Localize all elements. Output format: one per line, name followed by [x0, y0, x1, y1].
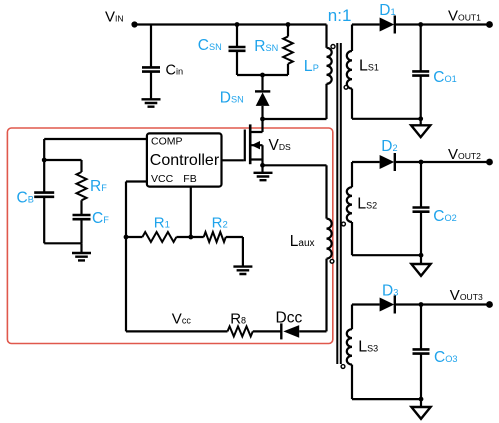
transformer core — [337, 43, 341, 364]
wire switch node to primary — [263, 118, 327, 120]
wire VCC pin — [126, 182, 147, 332]
wire Cin bottom — [150, 72, 152, 100]
capacitor CO2 — [413, 208, 457, 226]
wire R8 to Dcc — [253, 330, 281, 332]
diode D2 — [380, 138, 398, 171]
resistor R1 — [142, 214, 176, 242]
capacitor CF — [73, 210, 110, 227]
wire FB pin — [190, 187, 192, 237]
primary winding LP — [304, 48, 332, 84]
junction switch node (drain) — [260, 117, 265, 122]
polarity dot Laux — [330, 259, 334, 263]
wire CB bottom — [43, 197, 45, 243]
ground below R2 — [233, 267, 252, 274]
resistor RF — [77, 172, 108, 200]
wire LP bottom — [325, 84, 327, 119]
wire LP top — [325, 25, 327, 48]
resistor R8 — [228, 311, 253, 337]
wire LS2 bottom — [351, 222, 353, 255]
wire COMP pin — [44, 139, 147, 160]
wire output2 bottom rail — [352, 254, 421, 256]
ground below Q1 source — [254, 173, 273, 180]
wire gate — [222, 159, 244, 161]
capacitor CO1 — [412, 69, 457, 86]
net label VOUT2 — [448, 146, 481, 163]
label VDS — [269, 137, 292, 154]
ground below Cin — [142, 99, 161, 106]
diode DSN — [220, 90, 270, 107]
junction VCC to R1 — [124, 235, 129, 240]
junction Q1 source — [260, 163, 265, 168]
polarity dot LP — [331, 45, 335, 49]
junction output2 ground — [419, 253, 424, 258]
ground output2 — [411, 264, 430, 276]
controller name label — [150, 152, 220, 169]
wire CO1 top — [420, 25, 422, 72]
wire RSN top — [287, 25, 289, 37]
wire DSN cathode — [261, 75, 263, 90]
wire CO2 bottom — [420, 212, 422, 255]
wire CO2 top — [420, 162, 422, 207]
svg-text:Controller: Controller — [150, 152, 220, 169]
wire R1 to R2 — [176, 236, 203, 238]
wire LS2 to D2 — [352, 161, 380, 163]
wire Dcc to Laux — [299, 330, 326, 332]
junction COMP node — [42, 158, 47, 163]
junction CSN top — [235, 22, 240, 27]
wire COMP node to RF — [44, 159, 81, 161]
resistor RSN — [254, 37, 292, 64]
wire D1 to VOUT1 — [395, 23, 489, 25]
svg-text:COMP: COMP — [151, 136, 183, 148]
diode D3 — [380, 282, 399, 313]
junction RSN top — [286, 22, 291, 27]
svg-text:FB: FB — [183, 173, 196, 185]
controller pin label COMP — [151, 136, 183, 148]
controller section boundary box — [7, 128, 332, 344]
ground output3 — [411, 407, 430, 419]
polarity dot LS2 — [342, 222, 346, 226]
wire DSN anode — [261, 106, 263, 119]
wire LS1 to D1 — [352, 23, 380, 25]
net label VOUT1 — [448, 8, 481, 25]
wire LS3 to D3 — [352, 303, 380, 305]
junction output3 ground — [419, 397, 424, 402]
diode Dcc — [276, 310, 303, 340]
polarity dot LS1 — [344, 85, 348, 89]
wire LS1 top — [351, 25, 353, 52]
wire CF bottom — [80, 219, 82, 243]
junction CO1 top — [418, 22, 423, 27]
net label Vcc — [172, 311, 192, 328]
secondary winding LS2 — [347, 187, 377, 222]
polarity dot LS3 — [341, 365, 345, 369]
wire Vcc rail — [126, 330, 228, 332]
wire D2 to VOUT2 — [395, 161, 489, 163]
wire Laux bottom — [325, 259, 327, 332]
wire LS3 bottom — [351, 365, 353, 400]
wire LS1 bottom — [351, 89, 353, 119]
wire output1 ground stem — [420, 119, 422, 126]
wire output3 bottom rail — [352, 398, 421, 400]
capacitor CO3 — [413, 349, 458, 366]
wire RF to CF — [80, 200, 82, 215]
junction output1 ground — [418, 116, 423, 121]
wire snubber bottom rail — [237, 74, 288, 76]
capacitor Cin — [142, 63, 183, 79]
wire LS2 top — [351, 162, 353, 187]
op-amp U1 controller box — [147, 133, 222, 186]
wire CO3 bottom — [420, 354, 422, 399]
wire RF top — [80, 160, 82, 172]
node VIN terminal — [131, 21, 137, 27]
wire R1 left — [126, 236, 142, 238]
diode D1 — [379, 2, 395, 34]
wire Laux top — [325, 165, 327, 218]
junction CO2 top — [419, 160, 424, 165]
junction FB node — [188, 235, 193, 240]
wire LS3 top — [351, 305, 353, 330]
capacitor CSN — [198, 37, 246, 54]
wire CB top — [43, 160, 45, 192]
secondary winding LS1 — [347, 51, 379, 89]
wire CO1 bottom — [420, 76, 422, 119]
svg-text:VCC: VCC — [151, 173, 174, 185]
junction CO3 top — [419, 302, 424, 307]
capacitor CB — [17, 190, 55, 207]
node VOUT1 terminal — [486, 21, 493, 28]
auxiliary winding Laux — [290, 219, 332, 259]
wire Cin top — [150, 25, 152, 68]
wire VIN input rail — [135, 23, 327, 25]
node VOUT2 terminal — [486, 159, 493, 166]
wire compensation ground stem — [80, 243, 82, 253]
controller pin label VCC — [151, 173, 174, 185]
wire output3 ground stem — [420, 399, 422, 407]
wire RSN bottom — [287, 64, 289, 75]
resistor R2 — [204, 214, 228, 242]
wire CSN top — [236, 25, 238, 48]
svg-text:Dcc: Dcc — [276, 310, 303, 327]
junction snubber to DSN — [260, 73, 265, 78]
svg-text:n:1: n:1 — [328, 6, 352, 25]
transistor Q1 (power MOSFET) — [245, 119, 263, 173]
ground compensation network — [72, 253, 91, 260]
wire CSN bottom — [236, 51, 238, 75]
node VOUT3 terminal — [486, 301, 493, 308]
wire output2 ground stem — [420, 255, 422, 264]
controller pin label FB — [183, 173, 196, 185]
wire CO3 top — [420, 305, 422, 350]
wire D3 to VOUT3 — [395, 303, 489, 305]
ground output1 — [411, 125, 430, 137]
net label VIN — [105, 8, 124, 25]
net label VOUT3 — [450, 287, 483, 304]
wire output1 bottom rail — [352, 118, 421, 120]
wire R2 to ground — [226, 237, 243, 267]
turns ratio label n:1 — [328, 6, 352, 25]
wire compensation bottom rail — [44, 242, 81, 244]
secondary winding LS3 — [347, 329, 378, 364]
wire Q1 source to Laux — [263, 164, 327, 166]
